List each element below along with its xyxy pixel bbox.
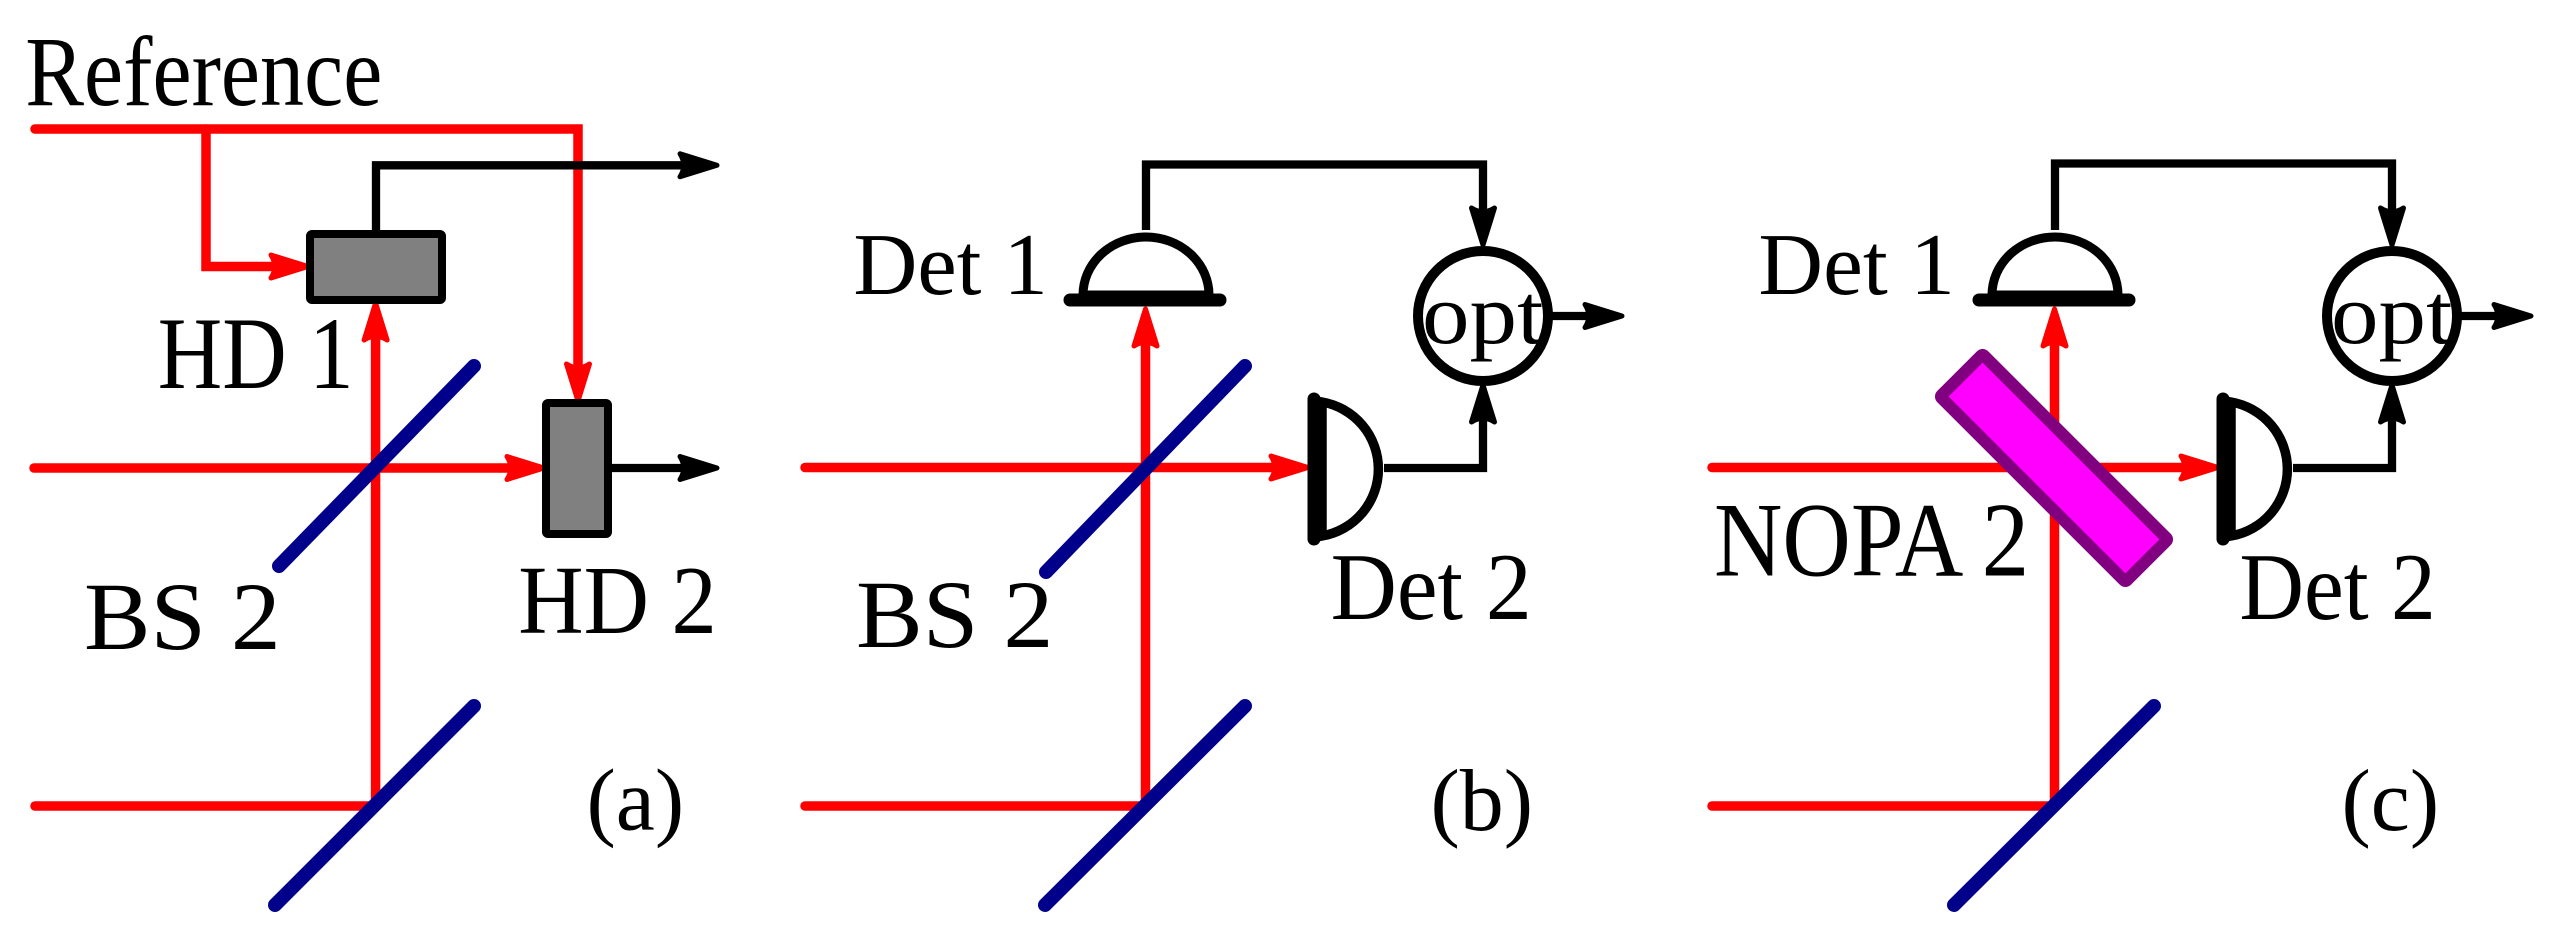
svg-text:opt: opt: [1422, 266, 1544, 362]
svg-text:Det 1: Det 1: [853, 216, 1047, 314]
svg-text:(a): (a): [587, 753, 685, 850]
svg-text:BS 2: BS 2: [84, 563, 281, 670]
svg-text:opt: opt: [2331, 266, 2453, 362]
svg-text:(b): (b): [1431, 753, 1534, 850]
svg-text:Det 1: Det 1: [1758, 216, 1955, 314]
svg-text:BS 2: BS 2: [856, 561, 1053, 668]
svg-text:Det 2: Det 2: [2239, 534, 2435, 640]
svg-text:Reference: Reference: [25, 16, 382, 127]
svg-text:Det 2: Det 2: [1331, 534, 1532, 640]
svg-text:HD 1: HD 1: [158, 297, 354, 411]
svg-text:NOPA 2: NOPA 2: [1714, 482, 2029, 600]
svg-text:(c): (c): [2342, 753, 2440, 850]
svg-text:HD 2: HD 2: [518, 547, 717, 654]
